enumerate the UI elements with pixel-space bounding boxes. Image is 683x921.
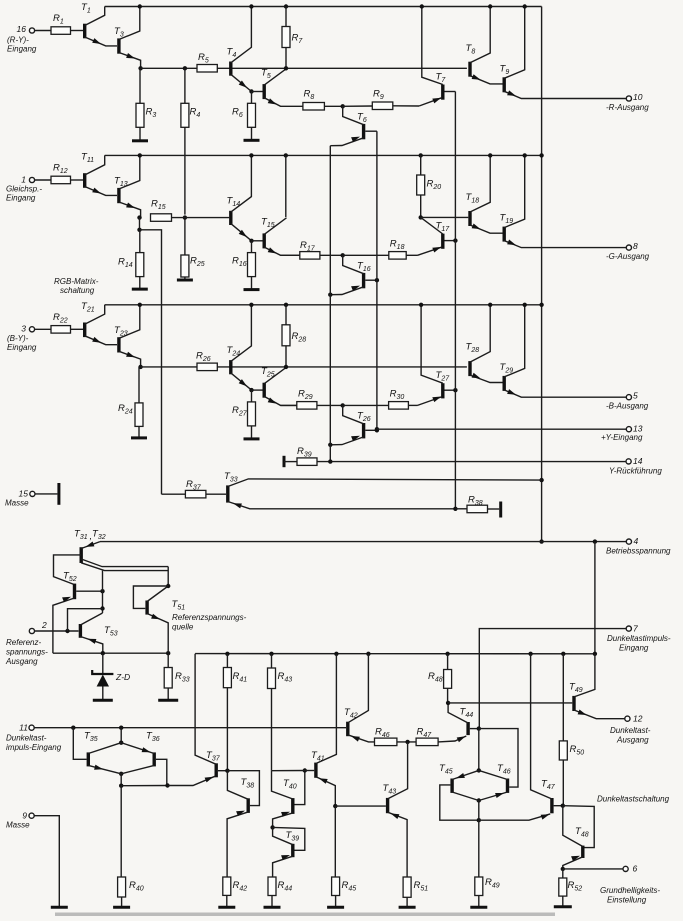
svg-text:6: 6 bbox=[633, 864, 638, 874]
svg-text:R42: R42 bbox=[233, 880, 248, 893]
svg-text:R51: R51 bbox=[414, 880, 429, 893]
svg-text:T53: T53 bbox=[104, 625, 118, 638]
svg-text:Betriebsspannung: Betriebsspannung bbox=[606, 547, 671, 556]
svg-text:16: 16 bbox=[17, 24, 27, 34]
pin 9 Masse bbox=[29, 813, 34, 818]
transistor T18 bbox=[468, 211, 471, 226]
resistor R3 bbox=[139, 68, 141, 103]
resistor R43 bbox=[271, 654, 273, 668]
node under T23 bbox=[138, 365, 142, 369]
svg-text:(B-Y)-: (B-Y)- bbox=[7, 334, 29, 343]
junction dot bbox=[341, 104, 345, 108]
svg-text:R12: R12 bbox=[53, 163, 68, 176]
T6 base bus x=377 bbox=[376, 131, 378, 429]
terminal 2 wire and loop bbox=[29, 628, 34, 633]
svg-text:Einstellung: Einstellung bbox=[607, 896, 647, 905]
transistor T14 bbox=[229, 211, 232, 225]
input terminal wire row 2 bbox=[29, 177, 34, 182]
svg-text:R7: R7 bbox=[292, 33, 304, 46]
svg-text:T40: T40 bbox=[283, 778, 297, 791]
svg-text:Ausgang: Ausgang bbox=[5, 657, 38, 666]
svg-text:3: 3 bbox=[21, 324, 26, 334]
T46 base loop to pin7 bus bbox=[479, 729, 518, 788]
transistor T51 (NPN, Referenzspannungsquelle) bbox=[145, 601, 148, 615]
T45/T46 diamond bbox=[478, 729, 480, 771]
resistor R7 (rail to node) bbox=[284, 4, 288, 8]
svg-text:R5: R5 bbox=[198, 52, 209, 65]
svg-text:T28: T28 bbox=[466, 341, 480, 354]
transistor T27 (PNP) bbox=[441, 383, 444, 398]
input terminal wire row 1 bbox=[29, 28, 34, 33]
svg-text:R16: R16 bbox=[232, 256, 247, 269]
svg-text:Dunkeltast-: Dunkeltast- bbox=[6, 734, 47, 743]
T51 collector-base loop bbox=[147, 586, 168, 602]
R37 / T33 base wire bbox=[162, 493, 186, 495]
resistor R5 bbox=[197, 65, 217, 73]
svg-text:T18: T18 bbox=[466, 192, 480, 205]
transistor T7 (PNP) bbox=[441, 85, 444, 100]
input terminal wire row 3 bbox=[29, 327, 34, 332]
resistor R51 bbox=[403, 877, 411, 897]
svg-text:7: 7 bbox=[633, 623, 638, 633]
pin 12 Dunkeltast-Ausgang bbox=[625, 716, 630, 721]
ground pin 9 bbox=[51, 906, 68, 909]
svg-text:R25: R25 bbox=[190, 256, 205, 269]
ground under R42 bbox=[218, 906, 235, 909]
svg-text:T49: T49 bbox=[569, 682, 583, 695]
svg-text:2: 2 bbox=[41, 620, 47, 630]
resistor R4 bbox=[181, 103, 189, 127]
svg-text:15: 15 bbox=[19, 489, 29, 499]
svg-text:Dunkeltast-: Dunkeltast- bbox=[610, 726, 651, 735]
resistor R15 bbox=[151, 214, 172, 222]
T51 emitter bbox=[147, 614, 168, 654]
pin 15 Masse bbox=[30, 491, 35, 496]
svg-text:T23: T23 bbox=[114, 325, 128, 338]
ground under zener bbox=[93, 699, 113, 702]
emitter node / resistor R6 down bbox=[249, 89, 253, 93]
svg-text:T14: T14 bbox=[227, 196, 241, 209]
svg-text:T26: T26 bbox=[357, 410, 371, 423]
pin 6 wire bbox=[563, 868, 623, 870]
transistor T25 bbox=[263, 383, 266, 398]
wire to R37 bus bbox=[140, 230, 162, 494]
ground under R24 bbox=[131, 436, 147, 439]
svg-text:R9: R9 bbox=[373, 88, 384, 101]
svg-text:+Y-Eingang: +Y-Eingang bbox=[601, 433, 643, 442]
Betriebsspannung wire (pin 4) bbox=[100, 541, 626, 543]
transistor T3 bbox=[117, 38, 120, 53]
transistor T26 (PNP) bbox=[362, 423, 365, 438]
transistor T16 (PNP) bbox=[362, 273, 365, 288]
resistor R14 bbox=[139, 230, 141, 253]
resistor R9 bbox=[372, 102, 393, 110]
svg-text:R20: R20 bbox=[427, 179, 442, 192]
svg-text:Eingang: Eingang bbox=[619, 644, 649, 653]
T31/T32 dual collector lines bbox=[81, 559, 168, 567]
base bus x=455 down to R38 bbox=[454, 92, 456, 509]
svg-text:R8: R8 bbox=[304, 88, 315, 101]
resistor R22 bbox=[51, 326, 71, 334]
svg-text:T52: T52 bbox=[63, 571, 77, 584]
resistor R42 bbox=[223, 877, 231, 895]
svg-text:Masse: Masse bbox=[5, 499, 29, 508]
svg-text:T33: T33 bbox=[224, 471, 238, 484]
transistor T24 bbox=[229, 360, 232, 374]
svg-text:R39: R39 bbox=[297, 446, 312, 459]
ground under R14 bbox=[132, 288, 148, 291]
svg-text:Eingang: Eingang bbox=[7, 343, 37, 352]
svg-text:R27: R27 bbox=[232, 405, 248, 418]
svg-text:T21: T21 bbox=[81, 301, 95, 314]
resistor R30 bbox=[389, 402, 409, 410]
svg-text:R28: R28 bbox=[292, 331, 307, 344]
collector bus x=102.5 bbox=[102, 571, 104, 613]
svg-text:R30: R30 bbox=[390, 388, 405, 401]
resistor R45 bbox=[334, 806, 336, 877]
transistor T17 (PNP) bbox=[441, 234, 444, 249]
svg-text:T29: T29 bbox=[500, 362, 514, 375]
svg-text:14: 14 bbox=[633, 456, 643, 466]
output terminal 5 bbox=[626, 395, 631, 400]
ground under R3 bbox=[132, 139, 148, 142]
resistor R52 bbox=[562, 869, 564, 878]
svg-text:T47: T47 bbox=[541, 779, 556, 792]
svg-text:T8: T8 bbox=[466, 43, 476, 56]
zener diode Z-D bbox=[53, 652, 168, 654]
resistor R24 bbox=[138, 367, 140, 403]
T31/T32 base wire to T52 collector bbox=[54, 555, 82, 585]
svg-text:R29: R29 bbox=[298, 388, 313, 401]
transistor T1 bbox=[83, 24, 86, 39]
svg-text:-R-Ausgang: -R-Ausgang bbox=[606, 103, 649, 112]
transistor T29 bbox=[503, 376, 506, 391]
svg-text:4: 4 bbox=[634, 536, 639, 546]
svg-text:T46: T46 bbox=[497, 763, 511, 776]
svg-text:T38: T38 bbox=[241, 777, 255, 790]
svg-text:R22: R22 bbox=[53, 312, 68, 325]
svg-text:R33: R33 bbox=[175, 671, 190, 684]
svg-text:1: 1 bbox=[21, 175, 26, 185]
svg-text:Dunkeltastschaltung: Dunkeltastschaltung bbox=[597, 795, 670, 804]
resistor R47 bbox=[416, 738, 438, 746]
T18 base wire bbox=[421, 216, 469, 218]
svg-text:Grundhelligkeits-: Grundhelligkeits- bbox=[600, 886, 660, 895]
node row1 / wire y68 bbox=[138, 66, 142, 70]
transistor T48 (diode connected) bbox=[581, 846, 584, 858]
svg-text:5: 5 bbox=[633, 391, 638, 401]
ground under R44 bbox=[264, 906, 281, 909]
svg-text:R14: R14 bbox=[118, 257, 133, 270]
T49 base wire bbox=[448, 702, 572, 704]
svg-text:R17: R17 bbox=[300, 240, 316, 253]
transistor T36 bbox=[152, 752, 155, 766]
+Y-Eingang wire (pin 13) bbox=[375, 427, 379, 431]
transistor T28 bbox=[468, 361, 471, 376]
transistor T4 bbox=[229, 62, 232, 76]
resistor R26 bbox=[197, 363, 217, 371]
resistor R29 bbox=[297, 402, 317, 410]
svg-text:T3: T3 bbox=[114, 26, 124, 39]
svg-text:T16: T16 bbox=[357, 260, 371, 273]
svg-text:schaltung: schaltung bbox=[60, 286, 95, 295]
svg-text:T6: T6 bbox=[357, 111, 367, 124]
svg-text:11: 11 bbox=[19, 722, 28, 732]
svg-text:T1: T1 bbox=[81, 2, 91, 15]
transistor T43 bbox=[386, 798, 389, 813]
svg-text:T13: T13 bbox=[114, 176, 128, 189]
svg-text:R50: R50 bbox=[570, 744, 585, 757]
svg-text:T17: T17 bbox=[436, 221, 451, 234]
resistor R18 bbox=[389, 252, 406, 260]
junction R46/R47 bbox=[397, 741, 416, 743]
svg-text:T4: T4 bbox=[227, 46, 237, 59]
transistor T8 bbox=[468, 62, 471, 77]
ground under R25 bbox=[177, 279, 193, 282]
node under T13 bbox=[137, 215, 141, 219]
transistor T31,T32 (dual PNP) bbox=[79, 547, 82, 563]
svg-text:R40: R40 bbox=[129, 880, 144, 893]
svg-text:R43: R43 bbox=[278, 671, 293, 684]
transistor T45 bbox=[450, 779, 453, 793]
T35/T36 diamond bbox=[120, 728, 122, 743]
svg-text:Referenzspannungs-: Referenzspannungs- bbox=[172, 613, 247, 622]
transistor T9 bbox=[503, 77, 506, 92]
transistor T47 (PNP) bbox=[550, 798, 553, 813]
resistor R28 (rail to node) bbox=[284, 303, 288, 307]
svg-text:R47: R47 bbox=[417, 727, 433, 740]
resistor R12 bbox=[51, 176, 71, 184]
T33 emitter wire to R38 bbox=[228, 502, 456, 509]
svg-text:10: 10 bbox=[633, 92, 643, 102]
transistor T21 bbox=[83, 323, 86, 338]
svg-text:T36: T36 bbox=[146, 731, 160, 744]
resistor R41 bbox=[226, 654, 228, 668]
svg-text:-B-Ausgang: -B-Ausgang bbox=[606, 402, 649, 411]
svg-text:R24: R24 bbox=[118, 403, 133, 416]
svg-text:-G-Ausgang: -G-Ausgang bbox=[606, 252, 650, 261]
svg-text:spannungs-: spannungs- bbox=[6, 648, 48, 657]
wire R15 junction R4/R25 bbox=[183, 215, 187, 219]
ground under R51 bbox=[399, 906, 416, 909]
svg-text:Dunkeltastimpuls-: Dunkeltastimpuls- bbox=[607, 634, 671, 643]
ground under R49 bbox=[470, 906, 487, 909]
svg-text:T35: T35 bbox=[84, 731, 98, 744]
svg-text:Masse: Masse bbox=[6, 821, 30, 830]
svg-text:T44: T44 bbox=[460, 707, 474, 720]
resistor R44 bbox=[268, 877, 276, 896]
wire to T37 emitter bbox=[121, 785, 167, 787]
svg-text:Referenz-: Referenz- bbox=[6, 638, 41, 647]
bottom rail bbox=[195, 653, 595, 655]
svg-text:R48: R48 bbox=[428, 671, 443, 684]
svg-text:T32: T32 bbox=[92, 529, 106, 542]
T47 emitter wire bbox=[479, 814, 550, 820]
transistor T41 bbox=[314, 763, 317, 778]
transistor T53 (PNP) bbox=[79, 624, 82, 638]
row 1 top rail bbox=[105, 6, 542, 8]
transistor T46 bbox=[506, 779, 509, 793]
svg-text:T27: T27 bbox=[436, 370, 451, 383]
svg-text:(R-Y)-: (R-Y)- bbox=[7, 36, 29, 45]
svg-text:T15: T15 bbox=[261, 217, 275, 230]
svg-text:R52: R52 bbox=[568, 880, 583, 893]
row 3 top rail bbox=[105, 304, 542, 306]
R39 and Y-Rueckfuehrung wire (pin 14) bbox=[283, 456, 286, 467]
resistor R25 bbox=[184, 218, 186, 255]
resistor R4 junction bbox=[183, 66, 187, 70]
transistor T49 bbox=[572, 696, 575, 711]
svg-text:8: 8 bbox=[633, 241, 638, 251]
emitter node / resistor R16 down bbox=[249, 239, 253, 243]
row 2 top rail bbox=[105, 154, 542, 156]
svg-text:R6: R6 bbox=[232, 106, 243, 119]
resistor R33 bbox=[167, 653, 169, 667]
svg-text:R45: R45 bbox=[342, 880, 357, 893]
resistor R50 bbox=[562, 654, 564, 741]
svg-text:Z-D: Z-D bbox=[115, 672, 130, 682]
transistor T39 (diode connected) bbox=[291, 844, 294, 857]
svg-text:quelle: quelle bbox=[172, 623, 194, 632]
vertical supply to bottom rail bbox=[594, 542, 596, 654]
resistor R46 bbox=[375, 738, 397, 746]
ground under R52 bbox=[554, 905, 572, 908]
transistor T19 bbox=[503, 227, 506, 242]
resistor R40 bbox=[120, 786, 122, 877]
svg-text:T45: T45 bbox=[439, 763, 453, 776]
resistor R20 bbox=[419, 153, 423, 157]
svg-text:Eingang: Eingang bbox=[7, 45, 37, 54]
svg-text:Eingang: Eingang bbox=[6, 194, 36, 203]
svg-text:R41: R41 bbox=[233, 671, 248, 684]
resistor R17 bbox=[300, 252, 320, 260]
output terminal 8 bbox=[626, 245, 631, 250]
svg-text:R4: R4 bbox=[190, 106, 201, 119]
junction dot bbox=[341, 403, 345, 407]
svg-text:R15: R15 bbox=[151, 199, 166, 212]
resistor R38 bbox=[455, 508, 467, 510]
transistor T6 (PNP) bbox=[362, 124, 365, 139]
T33 collector wire bbox=[228, 479, 542, 487]
svg-text:T31: T31 bbox=[74, 529, 88, 542]
svg-text:T24: T24 bbox=[227, 345, 241, 358]
resistor R48 bbox=[447, 654, 449, 670]
svg-text:R44: R44 bbox=[278, 880, 293, 893]
T44 emitter wire bbox=[438, 736, 466, 742]
svg-text:T11: T11 bbox=[81, 152, 94, 165]
svg-text:T25: T25 bbox=[261, 366, 275, 379]
transistor T37 (PNP) bbox=[214, 763, 217, 777]
svg-text:R46: R46 bbox=[375, 727, 390, 740]
svg-text:T51: T51 bbox=[172, 599, 186, 612]
transistor T11 bbox=[83, 173, 86, 188]
ground under R40 bbox=[113, 906, 130, 909]
resistor R1 bbox=[51, 27, 71, 35]
svg-text:Ausgang: Ausgang bbox=[616, 736, 649, 745]
right supply bus bbox=[541, 7, 543, 542]
transistor T23 bbox=[117, 337, 120, 352]
transistor T40 (PNP mirrored) bbox=[291, 798, 294, 814]
svg-text:T39: T39 bbox=[286, 830, 300, 843]
vertical T15 collector to rail bbox=[284, 153, 288, 157]
svg-text:RGB-Matrix-: RGB-Matrix- bbox=[54, 277, 99, 286]
svg-text:Y-Rückführung: Y-Rückführung bbox=[609, 467, 662, 476]
resistor R49 bbox=[478, 820, 480, 877]
transistor T35 bbox=[87, 752, 90, 766]
transistor T52 (PNP) bbox=[73, 584, 76, 600]
svg-text:impuls-Eingang: impuls-Eingang bbox=[6, 743, 62, 752]
transistor T33 (PNP) bbox=[226, 485, 229, 502]
transistor T5 bbox=[263, 84, 266, 99]
svg-text:12: 12 bbox=[633, 713, 643, 723]
svg-text:R38: R38 bbox=[468, 495, 483, 508]
transistor T38 (diode connected) bbox=[246, 798, 249, 813]
pin 11 Dunkeltastimpuls input wire bbox=[29, 725, 34, 730]
resistor R8 bbox=[303, 103, 325, 111]
svg-text:T48: T48 bbox=[575, 826, 589, 839]
svg-text:R26: R26 bbox=[196, 350, 211, 363]
svg-text:T43: T43 bbox=[383, 783, 397, 796]
svg-text:T19: T19 bbox=[500, 213, 514, 226]
transistor T42 (PNP) bbox=[346, 722, 349, 737]
emitter node / resistor R27 down bbox=[249, 388, 253, 392]
svg-text:13: 13 bbox=[633, 424, 643, 434]
svg-text:R18: R18 bbox=[390, 238, 405, 251]
pin 7 Dunkeltastimpuls wire bbox=[479, 629, 626, 729]
svg-text:T5: T5 bbox=[261, 67, 271, 80]
T45 base loop bbox=[440, 785, 479, 820]
svg-text:R37: R37 bbox=[186, 479, 202, 492]
bottom edge scan mark bbox=[55, 913, 555, 917]
output terminal 10 bbox=[626, 96, 631, 101]
svg-text:R1: R1 bbox=[53, 13, 64, 26]
svg-text:9: 9 bbox=[22, 810, 27, 820]
transistor T13 bbox=[117, 188, 120, 203]
T6 emitter bus x=330 bbox=[329, 146, 331, 462]
ground under R45 bbox=[327, 906, 344, 909]
transistor T44 (PNP) bbox=[466, 722, 469, 735]
svg-text:R3: R3 bbox=[146, 106, 157, 119]
svg-text:T9: T9 bbox=[500, 63, 510, 76]
transistor T15 bbox=[263, 233, 266, 248]
svg-text:R49: R49 bbox=[485, 877, 500, 890]
ground under R33 bbox=[158, 699, 178, 702]
svg-text:Gleichsp.-: Gleichsp.- bbox=[6, 185, 42, 194]
svg-text:T7: T7 bbox=[436, 72, 447, 85]
junction dot bbox=[341, 253, 345, 257]
